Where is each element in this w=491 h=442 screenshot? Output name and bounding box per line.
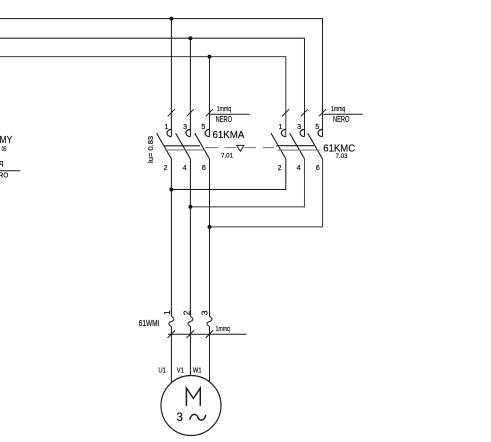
svg-text:U1: U1 bbox=[158, 367, 166, 374]
contact arc KMA pole3 bbox=[186, 129, 191, 136]
contact arc KMC pole3 bbox=[300, 129, 304, 136]
svg-text:1: 1 bbox=[278, 124, 282, 131]
wire label line KMC 1mmq NERO bbox=[324, 113, 363, 115]
wire KMC pole2 to KMA pole2 bbox=[171, 159, 285, 190]
svg-text:7.01: 7.01 bbox=[221, 152, 233, 159]
wire label line motor 1mmq bbox=[168, 333, 247, 335]
svg-text:Iu= 0.83: Iu= 0.83 bbox=[148, 136, 155, 163]
wire label line KMA 1mmq NERO bbox=[210, 113, 250, 115]
svg-text:61WMI: 61WMI bbox=[139, 318, 160, 328]
node junction dot L2/KMA3 bbox=[188, 36, 192, 40]
wire slash marker KMC pole1 bbox=[282, 109, 289, 116]
contact arc KMA pole5 bbox=[205, 129, 210, 136]
svg-text:RO: RO bbox=[0, 171, 8, 180]
cable squiggle wire V bbox=[188, 316, 193, 326]
svg-text:4: 4 bbox=[297, 165, 301, 172]
mechanical link dashed line bbox=[205, 147, 274, 149]
wire KMC pole4 to KMA pole4 bbox=[190, 159, 304, 207]
node junction dot L1/KMA1 bbox=[169, 17, 173, 21]
wire 61KMA pole1 top drop bbox=[170, 19, 172, 137]
contact blade KMA pole5 bbox=[195, 133, 210, 159]
svg-text:5: 5 bbox=[201, 124, 205, 131]
svg-text:3: 3 bbox=[183, 124, 187, 131]
wire slash marker motor W bbox=[206, 330, 214, 338]
svg-text:NERO: NERO bbox=[216, 115, 233, 124]
wire L2 top horizontal feed to 61KMC pole 3 bbox=[0, 38, 305, 136]
linkage bar KMA (black) bbox=[164, 145, 201, 147]
wire 61KMA pole5 top drop bbox=[209, 57, 211, 137]
svg-text:mmq: mmq bbox=[0, 158, 3, 167]
wire U to motor bbox=[170, 327, 172, 384]
svg-text:4: 4 bbox=[183, 165, 187, 172]
cable squiggle wire U bbox=[169, 316, 174, 326]
wire slash marker motor U bbox=[168, 330, 176, 338]
contactor U1 61KMA bbox=[157, 129, 210, 158]
motor M1 circle bbox=[161, 376, 221, 436]
wire V to motor bbox=[189, 327, 191, 376]
wire 61KMA pole3 top drop bbox=[189, 38, 191, 136]
wire slash marker KMA pole1 bbox=[168, 109, 175, 116]
wire phase V KMA pole4 down bbox=[189, 159, 191, 317]
svg-text:3: 3 bbox=[176, 412, 182, 424]
svg-text:1mmq: 1mmq bbox=[217, 104, 231, 113]
wire L1 top horizontal feed to 61KMC pole 5 bbox=[0, 19, 323, 137]
wire KMC pole6 to KMA pole6 bbox=[210, 159, 323, 227]
wire W to motor bbox=[209, 327, 211, 383]
contact arc KMC pole5 bbox=[318, 129, 323, 136]
node junction dot phase U bbox=[169, 188, 173, 192]
svg-text:3: 3 bbox=[297, 124, 301, 131]
svg-text:6: 6 bbox=[316, 165, 320, 172]
coil reference triangle 7.01 bbox=[237, 145, 244, 151]
contact blade KMC pole1 bbox=[271, 133, 286, 159]
linkage bar KMC (gray) bbox=[278, 149, 320, 151]
svg-text:05: 05 bbox=[2, 146, 7, 153]
svg-text:3: 3 bbox=[199, 310, 209, 315]
contact blade KMC pole3 bbox=[290, 133, 305, 159]
svg-text:1mmq: 1mmq bbox=[216, 324, 230, 333]
svg-text:61KMA: 61KMA bbox=[213, 130, 245, 141]
svg-text:2: 2 bbox=[164, 165, 168, 172]
contactor U2 61KMC bbox=[271, 129, 323, 158]
contact blade KMA pole1 bbox=[157, 133, 172, 159]
svg-text:MY: MY bbox=[0, 135, 13, 146]
motor AC sine symbol bbox=[190, 414, 206, 420]
svg-text:NERO: NERO bbox=[333, 115, 350, 124]
svg-text:1mmq: 1mmq bbox=[331, 104, 345, 113]
contact arc KMC pole1 bbox=[281, 129, 286, 136]
contact blade KMC pole5 bbox=[308, 133, 323, 159]
wire slash marker KMC pole3 bbox=[301, 109, 308, 116]
node junction dot L3/KMA5 bbox=[208, 55, 212, 59]
svg-text:V1: V1 bbox=[177, 367, 184, 374]
linkage bar KMC (black) bbox=[276, 145, 314, 147]
wire phase U KMA pole2 down bbox=[170, 159, 172, 317]
motor letter M bbox=[186, 388, 200, 406]
node junction dot phase W bbox=[208, 225, 212, 229]
svg-text:7.03: 7.03 bbox=[336, 153, 348, 160]
wire slash marker KMA pole3 bbox=[187, 109, 194, 116]
wire slash marker KMA pole5 bbox=[206, 109, 213, 116]
svg-text:5: 5 bbox=[315, 124, 319, 131]
wire slash marker KMC pole5 bbox=[319, 109, 326, 116]
cable squiggle wire W bbox=[207, 316, 212, 326]
svg-text:2: 2 bbox=[181, 310, 191, 315]
node junction dot phase V bbox=[188, 205, 192, 209]
svg-text:1: 1 bbox=[164, 124, 168, 131]
svg-text:6: 6 bbox=[202, 165, 206, 172]
wire label line KMY bbox=[0, 170, 20, 172]
svg-text:W1: W1 bbox=[193, 367, 202, 374]
svg-text:1: 1 bbox=[162, 310, 172, 315]
linkage bar KMA (gray) bbox=[165, 149, 205, 151]
wire phase W KMA pole6 down bbox=[209, 159, 211, 317]
wire L3 top horizontal feed to 61KMC pole 1 bbox=[0, 57, 286, 137]
wire slash marker motor V bbox=[187, 330, 195, 338]
contact arc KMA pole1 bbox=[167, 129, 172, 136]
svg-text:2: 2 bbox=[278, 165, 282, 172]
contact blade KMA pole3 bbox=[176, 133, 191, 159]
